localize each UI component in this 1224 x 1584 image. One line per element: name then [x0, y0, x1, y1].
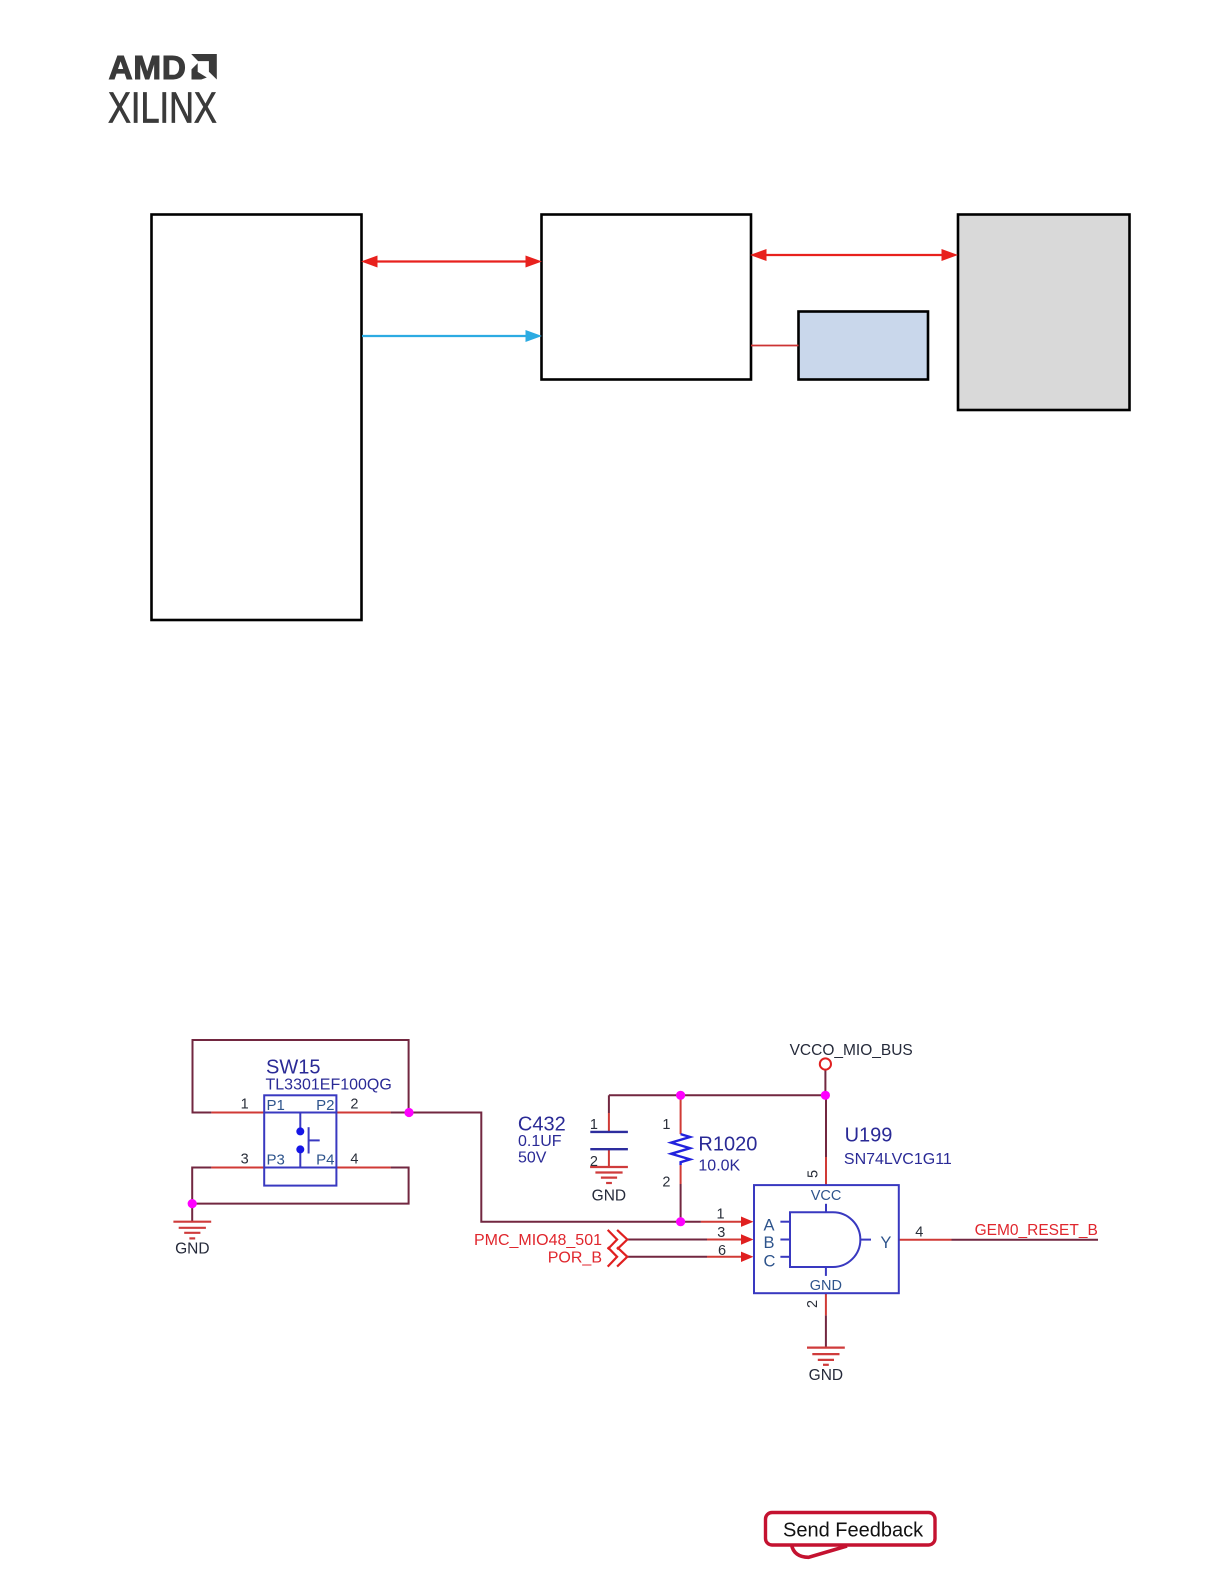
- svg-text:2: 2: [590, 1154, 598, 1170]
- pin SW15.1: [211, 1112, 264, 1114]
- svg-text:SW15: SW15: [266, 1057, 320, 1079]
- svg-text:2: 2: [350, 1096, 358, 1112]
- pin C432.2: [608, 1149, 610, 1167]
- svg-text:1: 1: [662, 1117, 670, 1133]
- svg-text:POR_B: POR_B: [548, 1250, 602, 1267]
- svg-text:U199: U199: [845, 1124, 893, 1146]
- svg-text:Y: Y: [880, 1234, 891, 1252]
- wire bottom loop SW15: [192, 1168, 408, 1204]
- svg-text:3: 3: [241, 1152, 249, 1168]
- wire cap top drop: [608, 1095, 610, 1113]
- pin U199.VCC stub: [825, 1157, 827, 1185]
- wire B net: [627, 1239, 707, 1241]
- wire vcco symbol drop: [824, 1070, 826, 1096]
- node junction R top: [676, 1091, 685, 1100]
- svg-text:0.1UF: 0.1UF: [518, 1133, 562, 1150]
- wire vcc pin upper: [825, 1095, 827, 1157]
- wire R1020 bottom: [680, 1184, 682, 1222]
- node junction VCC: [821, 1091, 830, 1100]
- wire top loop SW15: [193, 1040, 409, 1113]
- red double arrow 1: [363, 256, 541, 267]
- svg-text:5: 5: [806, 1170, 822, 1178]
- capacitor C432 plates: [590, 1132, 628, 1149]
- svg-text:10.0K: 10.0K: [698, 1158, 740, 1175]
- svg-text:3: 3: [717, 1225, 725, 1241]
- pin R1020.2: [680, 1165, 682, 1184]
- pin U199.Y stub: [899, 1239, 952, 1241]
- resistor R1020 zigzag: [671, 1134, 690, 1165]
- block rect blue: [799, 312, 929, 380]
- wire gnd drop left: [191, 1204, 193, 1222]
- svg-text:GND: GND: [809, 1367, 843, 1384]
- SCHEMATIC WIRES (maroon): [192, 1040, 1098, 1348]
- svg-text:VCC: VCC: [811, 1188, 842, 1204]
- block rect gray: [958, 215, 1130, 411]
- block rect middle: [542, 215, 752, 380]
- pin SW15.2: [336, 1112, 390, 1114]
- gate internal stubs: [780, 1204, 871, 1276]
- switch SW15 body: [264, 1095, 336, 1185]
- svg-text:SN74LVC1G11: SN74LVC1G11: [844, 1151, 952, 1168]
- svg-text:VCCO_MIO_BUS: VCCO_MIO_BUS: [790, 1042, 913, 1059]
- svg-text:GND: GND: [175, 1241, 209, 1258]
- pin U199.GND stub: [825, 1294, 827, 1316]
- svg-text:GND: GND: [810, 1278, 842, 1294]
- node junction GND left: [188, 1199, 197, 1208]
- red double arrow 2: [752, 250, 957, 261]
- svg-text:50V: 50V: [518, 1149, 547, 1166]
- svg-text:GEM0_RESET_B: GEM0_RESET_B: [975, 1222, 1098, 1239]
- svg-text:A: A: [764, 1216, 775, 1234]
- switch contact dots: [296, 1127, 304, 1135]
- AMD wordmark: [109, 50, 187, 87]
- pin R1020.1: [680, 1095, 682, 1134]
- input arrowhead A: [741, 1217, 754, 1227]
- pin SW15.4: [336, 1167, 390, 1169]
- svg-text:PMC_MIO48_501: PMC_MIO48_501: [474, 1232, 602, 1249]
- pin SW15.3: [211, 1167, 264, 1169]
- svg-text:P2: P2: [316, 1097, 334, 1114]
- pin C432.1: [608, 1113, 610, 1132]
- svg-text:4: 4: [915, 1224, 923, 1240]
- feedback button: [766, 1513, 936, 1558]
- svg-text:1: 1: [716, 1207, 724, 1223]
- svg-text:1: 1: [241, 1096, 249, 1112]
- svg-text:P4: P4: [316, 1152, 334, 1169]
- red link line to blue block: [751, 345, 799, 347]
- cyan arrow: [362, 331, 541, 342]
- svg-text:6: 6: [718, 1243, 726, 1259]
- ground U199: [807, 1348, 845, 1365]
- node junction A: [676, 1217, 685, 1226]
- wire output net: [952, 1239, 1099, 1241]
- op U199 body rect: [754, 1185, 899, 1293]
- svg-text:2: 2: [662, 1175, 670, 1191]
- svg-text:B: B: [764, 1234, 775, 1252]
- svg-text:P3: P3: [267, 1152, 285, 1169]
- svg-text:TL3301EF100QG: TL3301EF100QG: [266, 1077, 392, 1094]
- pin U199.A stub: [701, 1221, 746, 1223]
- svg-text:4: 4: [350, 1152, 358, 1168]
- svg-text:GND: GND: [592, 1188, 626, 1205]
- svg-text:R1020: R1020: [698, 1134, 757, 1156]
- AMD arrow glyph: [191, 54, 217, 80]
- offpage chevron PMC_MIO48_501: [608, 1230, 628, 1249]
- wire C net: [627, 1256, 707, 1258]
- pin U199.C stub: [707, 1256, 746, 1258]
- power symbol VCCO_MIO_BUS: [820, 1058, 831, 1069]
- svg-text:C: C: [764, 1252, 776, 1270]
- node junction SW pin2: [404, 1108, 413, 1117]
- AND gate shape: [790, 1212, 860, 1267]
- pin U199.B stub: [707, 1239, 746, 1241]
- RED PIN STUBS: [211, 1095, 951, 1315]
- wire vcc bus horizontal: [609, 1094, 826, 1096]
- wire gate gnd lower: [825, 1315, 827, 1347]
- ground capacitor: [590, 1167, 628, 1183]
- input arrowhead B: [741, 1234, 754, 1244]
- svg-text:2: 2: [805, 1300, 821, 1308]
- wire pin2 to A-node: [391, 1113, 701, 1222]
- input arrowhead C: [741, 1252, 754, 1262]
- offpage chevron POR_B: [608, 1247, 628, 1266]
- svg-text:Send Feedback: Send Feedback: [783, 1520, 924, 1542]
- svg-text:P1: P1: [267, 1097, 285, 1114]
- block rect left: [152, 215, 362, 621]
- svg-text:AMD: AMD: [109, 50, 187, 87]
- svg-text:XILINX: XILINX: [108, 83, 217, 132]
- ground left: [173, 1222, 211, 1239]
- svg-text:1: 1: [590, 1117, 598, 1133]
